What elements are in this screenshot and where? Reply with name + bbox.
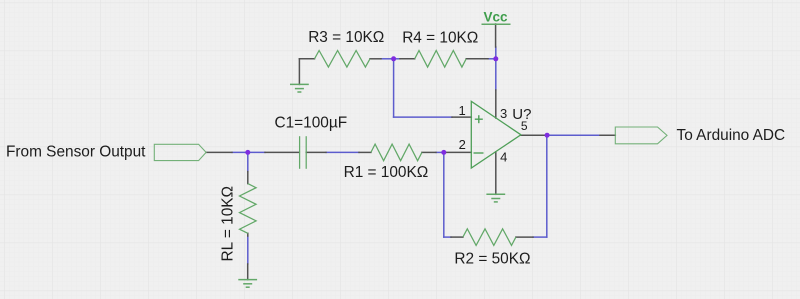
svg-text:R1 = 100KΩ: R1 = 100KΩ: [344, 164, 429, 181]
svg-text:U?: U?: [512, 106, 531, 123]
svg-text:R4 = 10KΩ: R4 = 10KΩ: [402, 29, 478, 46]
svg-text:C1=100µF: C1=100µF: [275, 114, 348, 131]
svg-text:4: 4: [500, 149, 507, 164]
svg-text:1: 1: [458, 103, 465, 118]
svg-text:RL = 10KΩ: RL = 10KΩ: [220, 186, 237, 262]
svg-text:R2 = 50KΩ: R2 = 50KΩ: [454, 250, 530, 267]
svg-text:2: 2: [459, 137, 466, 152]
svg-text:To Arduino ADC: To Arduino ADC: [677, 127, 786, 144]
svg-text:From Sensor Output: From Sensor Output: [6, 143, 146, 160]
svg-text:Vcc: Vcc: [483, 9, 508, 24]
svg-text:3: 3: [500, 106, 507, 121]
svg-text:R3 = 10KΩ: R3 = 10KΩ: [308, 29, 384, 46]
